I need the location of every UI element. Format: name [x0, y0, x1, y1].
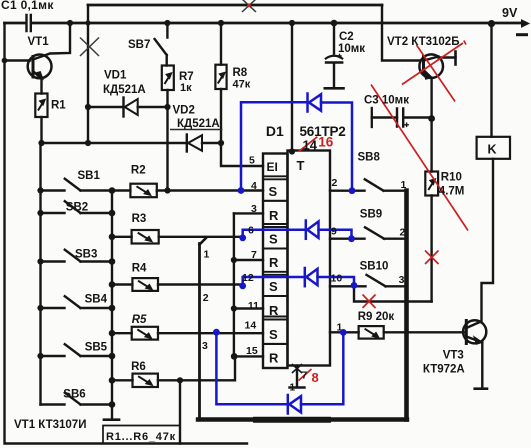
svg-text:C3 10мк: C3 10мк [364, 95, 409, 107]
svg-text:КТ972А: КТ972А [423, 364, 465, 376]
svg-text:VT1: VT1 [28, 36, 50, 48]
svg-text:16: 16 [318, 135, 334, 150]
svg-text:EI: EI [267, 160, 278, 174]
svg-text:5: 5 [249, 155, 255, 167]
svg-text:R6: R6 [131, 361, 146, 373]
svg-text:4: 4 [251, 180, 257, 192]
svg-text:S: S [269, 184, 278, 199]
svg-text:3: 3 [251, 203, 257, 215]
svg-text:SB5: SB5 [85, 342, 108, 354]
svg-text:7: 7 [251, 249, 257, 261]
svg-text:3: 3 [399, 274, 405, 286]
svg-text:1: 1 [401, 179, 407, 191]
svg-text:2: 2 [332, 177, 338, 189]
svg-text:1к: 1к [180, 82, 192, 94]
svg-text:R: R [269, 255, 279, 270]
svg-text:SB10: SB10 [360, 261, 389, 273]
svg-text:R1: R1 [51, 100, 66, 112]
svg-text:1: 1 [337, 322, 343, 334]
svg-text:VD2: VD2 [173, 105, 195, 117]
svg-text:R: R [269, 351, 279, 366]
svg-text:VT1 КТ3107И: VT1 КТ3107И [14, 419, 86, 431]
svg-text:14: 14 [245, 320, 257, 332]
svg-text:C2: C2 [339, 31, 354, 43]
svg-text:SB6: SB6 [63, 389, 85, 401]
svg-text:SB1: SB1 [78, 170, 101, 182]
svg-text:R8: R8 [233, 67, 248, 79]
svg-text:S: S [269, 232, 278, 247]
svg-text:1: 1 [204, 249, 210, 261]
svg-text:SB4: SB4 [85, 294, 108, 306]
svg-text:6: 6 [248, 225, 254, 237]
svg-text:1: 1 [290, 383, 296, 394]
svg-text:12: 12 [242, 272, 254, 284]
svg-text:R1...R6_47к: R1...R6_47к [106, 431, 176, 443]
svg-text:R5: R5 [132, 314, 147, 326]
svg-text:T: T [297, 158, 305, 173]
svg-text:R9 20к: R9 20к [358, 311, 395, 323]
svg-text:S: S [269, 279, 278, 294]
svg-text:10: 10 [331, 273, 343, 285]
svg-text:8: 8 [312, 370, 319, 385]
svg-text:3: 3 [202, 340, 208, 352]
svg-text:КД521А: КД521А [103, 84, 146, 96]
svg-text:SB7: SB7 [128, 39, 150, 51]
svg-text:R10: R10 [441, 172, 462, 184]
svg-text:9: 9 [331, 226, 337, 238]
svg-text:7: 7 [302, 370, 308, 382]
svg-text:S: S [269, 327, 278, 342]
svg-text:R4: R4 [132, 263, 147, 275]
svg-text:11: 11 [248, 300, 259, 312]
svg-text:15: 15 [246, 345, 258, 357]
svg-text:C1 0,1мк: C1 0,1мк [1, 0, 54, 12]
svg-text:4.7М: 4.7М [439, 186, 465, 198]
svg-text:VD1: VD1 [104, 70, 127, 82]
svg-text:SB8: SB8 [358, 152, 381, 164]
svg-text:SB2: SB2 [66, 202, 88, 214]
svg-text:14: 14 [303, 138, 318, 153]
svg-text:2: 2 [400, 227, 406, 239]
svg-text:47к: 47к [233, 79, 251, 91]
svg-text:10мк: 10мк [338, 43, 365, 55]
svg-text:R: R [269, 303, 279, 318]
svg-text:R: R [269, 208, 279, 223]
svg-text:2: 2 [203, 292, 209, 304]
svg-text:SB3: SB3 [75, 249, 97, 261]
svg-text:SB9: SB9 [360, 209, 382, 221]
svg-text:9V: 9V [502, 6, 518, 20]
svg-text:VT3: VT3 [443, 350, 464, 362]
svg-text:R2: R2 [131, 165, 146, 177]
svg-text:R3: R3 [132, 213, 147, 225]
svg-text:VT2 КТ3102Б: VT2 КТ3102Б [387, 36, 459, 48]
svg-text:K: K [488, 143, 497, 157]
svg-text:D1: D1 [266, 123, 284, 139]
svg-text:КД521А: КД521А [177, 118, 220, 130]
